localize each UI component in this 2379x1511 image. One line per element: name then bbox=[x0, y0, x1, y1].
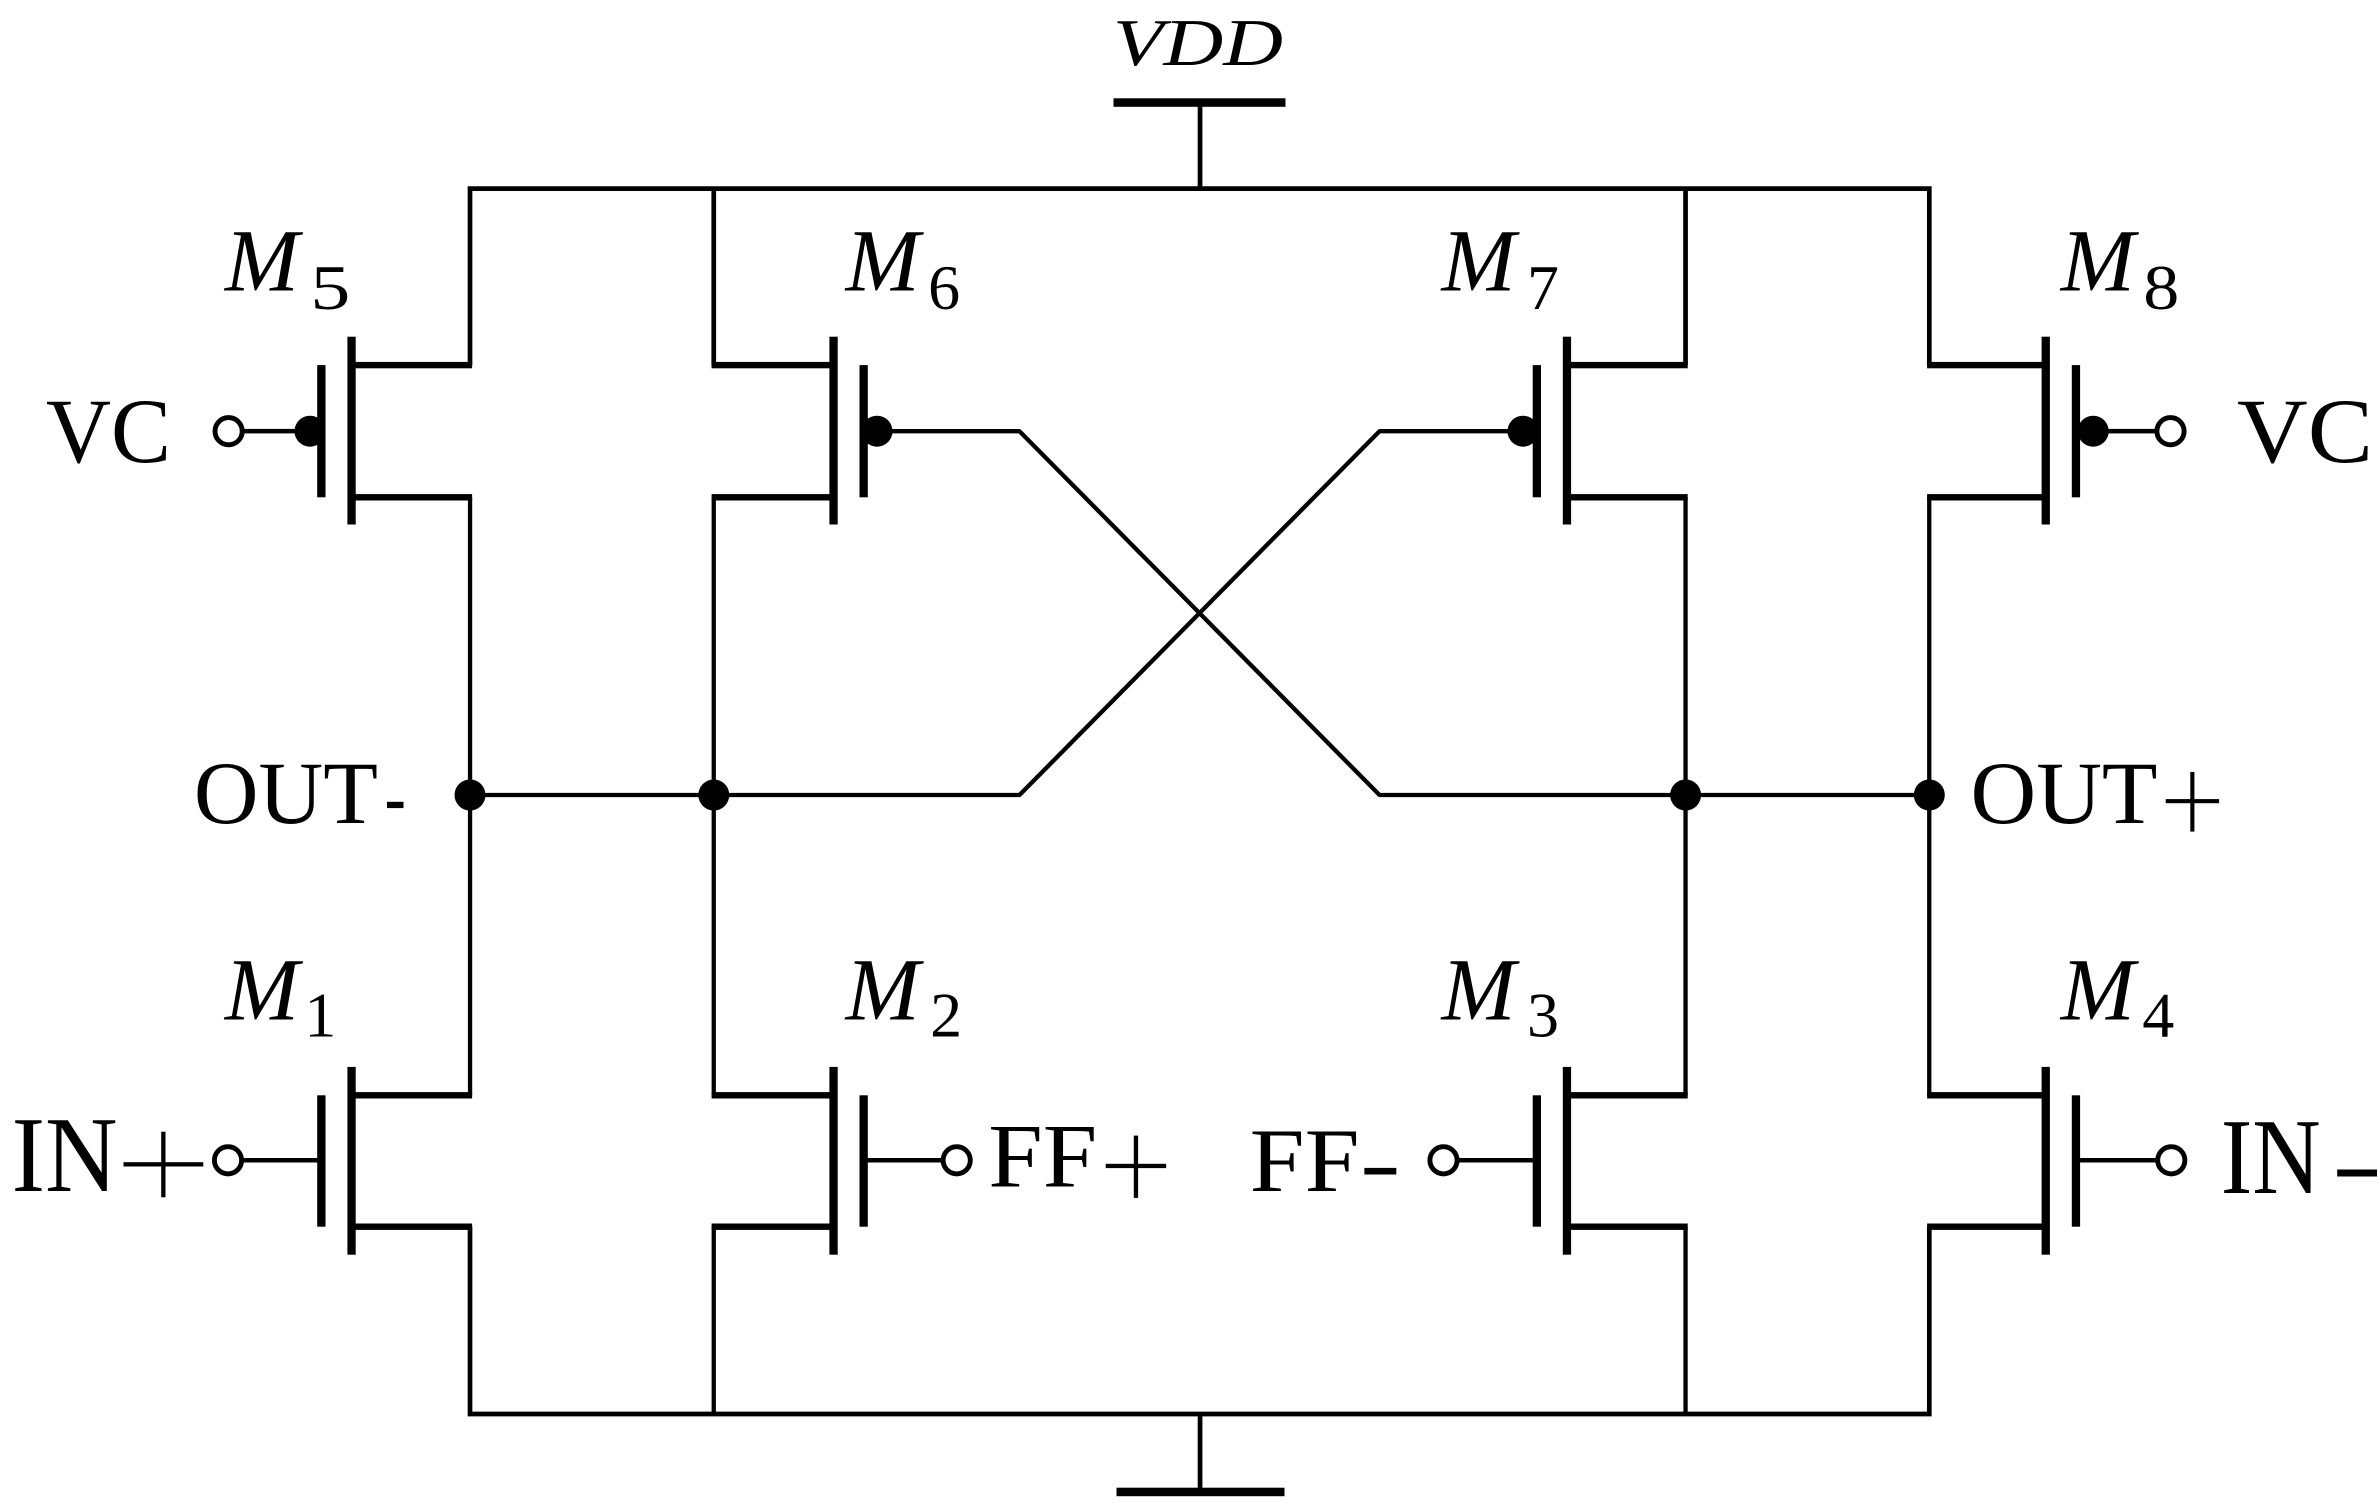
label M5 bbox=[223, 213, 351, 324]
terminal FF+ circle bbox=[943, 1147, 970, 1174]
label M8 bbox=[2059, 213, 2180, 324]
svg-text:6: 6 bbox=[928, 252, 960, 323]
wire M8 source to OUT+ to M4 drain bbox=[1927, 497, 1931, 1095]
transistor M6 bbox=[712, 337, 868, 525]
label M2 bbox=[844, 941, 963, 1050]
transistor M2 bbox=[712, 1067, 868, 1255]
svg-text:IN: IN bbox=[12, 1096, 118, 1215]
svg-text:M: M bbox=[844, 213, 925, 311]
tail supply bar bbox=[1117, 1488, 1285, 1497]
node M6 gate junction dot bbox=[862, 416, 893, 447]
wire M6 drain vertical bbox=[711, 189, 716, 366]
label M7 bbox=[1440, 213, 1560, 324]
svg-text:5: 5 bbox=[310, 252, 350, 323]
wire VC terminal to M5 gate bbox=[229, 429, 322, 434]
label IN- bbox=[2221, 1098, 2377, 1217]
label IN+ bbox=[12, 1096, 204, 1215]
wire VDD stem bbox=[1198, 103, 1203, 189]
VDD supply bar bbox=[1114, 98, 1286, 107]
terminal VC right circle bbox=[2157, 418, 2184, 445]
svg-text:VC: VC bbox=[2237, 380, 2373, 482]
svg-text:VC: VC bbox=[46, 380, 171, 482]
svg-text:IN: IN bbox=[2221, 1098, 2321, 1217]
wire M7 drain vertical bbox=[1683, 189, 1688, 366]
label FF+ bbox=[988, 1106, 1166, 1207]
wire top rail with end drops to M5/M8 drains bbox=[470, 189, 1929, 365]
node M7 gate junction dot bbox=[1508, 416, 1539, 447]
terminal FF- circle bbox=[1430, 1147, 1457, 1174]
svg-text:M: M bbox=[223, 941, 304, 1039]
svg-text:FF: FF bbox=[988, 1106, 1097, 1207]
transistor M3 bbox=[1533, 1067, 1688, 1255]
terminal VC left circle bbox=[215, 418, 242, 445]
label OUT+ bbox=[1971, 745, 2220, 843]
label M1 bbox=[223, 941, 337, 1050]
transistor M1 bbox=[317, 1067, 472, 1255]
wire M2 source vertical bbox=[712, 1227, 716, 1414]
label M3 bbox=[1440, 941, 1560, 1050]
svg-text:M: M bbox=[2059, 941, 2140, 1039]
svg-text:FF: FF bbox=[1250, 1110, 1360, 1211]
terminal IN- circle bbox=[2158, 1147, 2185, 1174]
node OUT- at M6 column bbox=[698, 780, 729, 811]
node M5 gate junction dot bbox=[295, 416, 326, 447]
transistor M7 bbox=[1533, 337, 1688, 525]
wire M6 gate cross-coupled to OUT+ bbox=[877, 431, 1929, 795]
label M4 bbox=[2059, 941, 2175, 1050]
svg-text:4: 4 bbox=[2142, 980, 2174, 1051]
svg-text:2: 2 bbox=[930, 980, 962, 1051]
transistor M8 bbox=[1927, 337, 2080, 525]
wire M5 source to OUT- to M1 drain bbox=[468, 497, 472, 1095]
svg-text:M: M bbox=[2059, 213, 2140, 311]
svg-text:VDD: VDD bbox=[1113, 6, 1283, 80]
label FF- bbox=[1250, 1110, 1397, 1211]
svg-text:OUT: OUT bbox=[1971, 745, 2158, 843]
node OUT+ at M8 column bbox=[1914, 780, 1945, 811]
label M6 bbox=[844, 213, 961, 324]
node M8 gate junction dot bbox=[2078, 416, 2109, 447]
svg-text:M: M bbox=[223, 213, 304, 311]
node OUT+ at M7 column bbox=[1670, 780, 1701, 811]
svg-text:M: M bbox=[1440, 213, 1521, 311]
wire tail stem bbox=[1198, 1414, 1203, 1492]
label OUT- bbox=[194, 745, 404, 843]
wire M3 source vertical bbox=[1683, 1227, 1687, 1414]
svg-text:7: 7 bbox=[1527, 252, 1559, 323]
svg-text:3: 3 bbox=[1527, 980, 1559, 1051]
node OUT- at M5 column bbox=[455, 780, 486, 811]
svg-text:M: M bbox=[844, 941, 925, 1039]
svg-text:8: 8 bbox=[2143, 252, 2179, 323]
wire M4 gate to IN- terminal bbox=[2076, 1158, 2171, 1163]
wire IN+ terminal to M1 gate bbox=[228, 1158, 321, 1163]
svg-text:M: M bbox=[1440, 941, 1521, 1039]
wire FF- terminal to M3 gate bbox=[1444, 1158, 1537, 1163]
wire bottom rail with rises to M1/M4 sources bbox=[470, 1227, 1929, 1414]
transistor M4 bbox=[1927, 1067, 2080, 1255]
terminal IN+ circle bbox=[214, 1147, 241, 1174]
wire M8 gate to VC terminal bbox=[2076, 429, 2171, 434]
transistor M5 bbox=[317, 337, 472, 525]
wire M2 gate to FF+ terminal bbox=[864, 1158, 957, 1163]
svg-text:1: 1 bbox=[304, 980, 336, 1051]
svg-text:OUT: OUT bbox=[194, 745, 378, 843]
wire M7 source to OUT+ to M3 drain bbox=[1683, 497, 1687, 1095]
wire M6 source to OUT- to M2 drain bbox=[712, 497, 716, 1095]
wire OUT- cross-coupled to M7 gate bbox=[470, 431, 1523, 795]
